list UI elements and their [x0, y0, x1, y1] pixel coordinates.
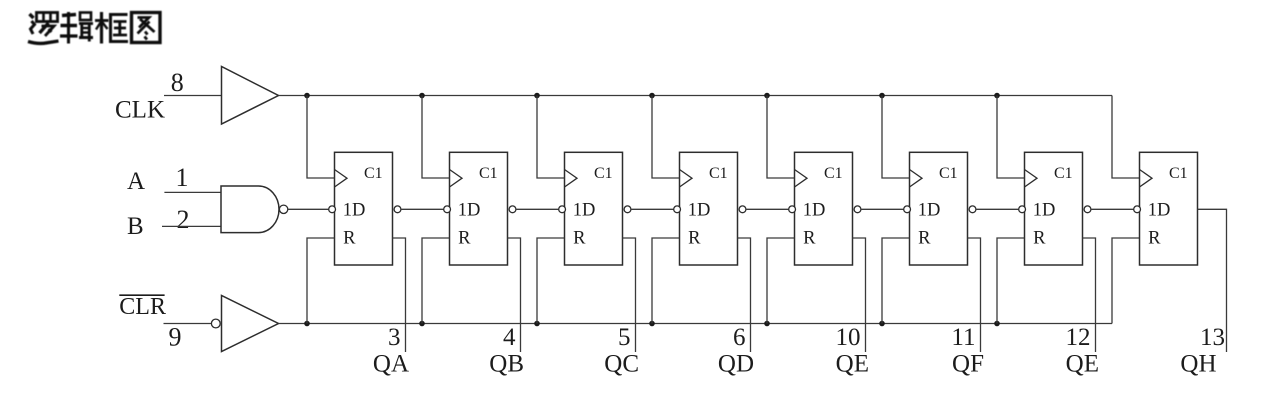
FF1 Q output bubble: [394, 206, 401, 213]
clock rail junction FF5: [764, 93, 770, 99]
FF6 D input bubble: [904, 206, 911, 213]
svg-text:R: R: [688, 229, 701, 249]
svg-text:R: R: [573, 229, 586, 249]
FF1 D input bubble: [329, 206, 336, 213]
svg-text:C1: C1: [1054, 165, 1073, 182]
wire clear rise FF1: [307, 238, 335, 324]
svg-text:C1: C1: [594, 165, 613, 182]
svg-text:R: R: [1033, 229, 1046, 249]
FF1 clock wedge: [335, 170, 348, 188]
svg-text:11: 11: [951, 324, 975, 351]
svg-text:C1: C1: [1169, 165, 1188, 182]
FF4 clock wedge: [680, 170, 693, 188]
svg-text:1D: 1D: [1033, 201, 1056, 221]
svg-text:R: R: [803, 229, 816, 249]
FF3 clock wedge: [565, 170, 578, 188]
D flip-flop FF8 body: [1140, 152, 1198, 265]
wire clock drop FF2: [422, 96, 450, 179]
wire clock rail end drop to FF8: [1112, 96, 1140, 179]
FF8 clock wedge: [1140, 170, 1153, 188]
wire FF1 output drop QA: [393, 238, 406, 352]
wire FF7 output drop QG: [1083, 238, 1096, 352]
wire clear rail end rise to FF8 R: [1112, 238, 1140, 324]
buffer U1 (CLK driver): [222, 67, 279, 125]
wire clear rise FF7: [997, 238, 1025, 324]
svg-text:5: 5: [618, 324, 631, 351]
svg-text:C1: C1: [709, 165, 728, 182]
svg-text:QA: QA: [373, 351, 409, 378]
svg-text:CLK: CLK: [115, 97, 165, 124]
wire clock drop FF5: [767, 96, 795, 179]
wire FF2 Q to FF3 D: [516, 208, 559, 210]
svg-text:6: 6: [733, 324, 746, 351]
svg-text:1D: 1D: [803, 201, 826, 221]
wire CLK input to buffer: [164, 95, 222, 97]
svg-text:QD: QD: [718, 351, 754, 378]
NAND gate U2 body: [221, 186, 279, 233]
D flip-flop FF6 body: [910, 152, 968, 265]
FF2 D input bubble: [444, 206, 451, 213]
svg-text:1D: 1D: [573, 201, 596, 221]
svg-text:QH: QH: [1180, 351, 1216, 378]
wire clock drop FF4: [652, 96, 680, 179]
wire clock drop FF6: [882, 96, 910, 179]
FF2 clock wedge: [450, 170, 463, 188]
clock rail junction FF4: [649, 93, 655, 99]
wire clear rise FF6: [882, 238, 910, 324]
clock rail junction FF6: [879, 93, 885, 99]
wire clock rail: [279, 95, 1113, 97]
wire FF2 output drop QB: [508, 238, 521, 352]
wire clear rise FF2: [422, 238, 450, 324]
svg-text:B: B: [127, 213, 144, 240]
clear rail junction FF4: [649, 321, 655, 327]
wire clear rise FF5: [767, 238, 795, 324]
svg-text:QB: QB: [489, 351, 524, 378]
wire B to NAND: [162, 225, 221, 227]
NAND output bubble: [279, 205, 287, 213]
svg-text:C1: C1: [824, 165, 843, 182]
wire A to NAND: [164, 191, 221, 193]
svg-text:CLR: CLR: [119, 294, 166, 320]
D flip-flop FF4 body: [680, 152, 738, 265]
svg-text:10: 10: [836, 324, 861, 351]
svg-text:3: 3: [388, 324, 401, 351]
svg-text:QF: QF: [952, 351, 984, 378]
svg-text:R: R: [1148, 229, 1161, 249]
wire FF1 Q to FF2 D: [401, 208, 444, 210]
svg-text:1D: 1D: [458, 201, 481, 221]
wire NAND out to FF1 D input: [288, 208, 329, 210]
wire FF5 Q to FF6 D: [861, 208, 904, 210]
D flip-flop FF5 body: [795, 152, 853, 265]
clear rail junction FF6: [879, 321, 885, 327]
wire clock drop FF3: [537, 96, 565, 179]
svg-text:1D: 1D: [918, 201, 941, 221]
svg-text:R: R: [343, 229, 356, 249]
clock rail junction FF1: [304, 93, 310, 99]
clock rail junction FF7: [994, 93, 1000, 99]
FF7 Q output bubble: [1084, 206, 1091, 213]
svg-text:1D: 1D: [343, 201, 366, 221]
clock rail junction FF2: [419, 93, 425, 99]
wire FF5 output drop QE: [853, 238, 866, 352]
D flip-flop FF3 body: [565, 152, 623, 265]
svg-text:9: 9: [169, 323, 182, 352]
svg-text:1D: 1D: [688, 201, 711, 221]
FF5 clock wedge: [795, 170, 808, 188]
wire clock drop FF1: [307, 96, 335, 179]
svg-text:C1: C1: [939, 165, 958, 182]
clear rail junction FF3: [534, 321, 540, 327]
svg-text:QE: QE: [836, 351, 869, 378]
FF3 Q output bubble: [624, 206, 631, 213]
clear rail junction FF1: [304, 321, 310, 327]
FF7 D input bubble: [1019, 206, 1026, 213]
wire clock drop FF7: [997, 96, 1025, 179]
wire FF6 output drop QF: [968, 238, 981, 352]
svg-text:8: 8: [171, 68, 184, 97]
svg-text:4: 4: [503, 324, 516, 351]
svg-text:QC: QC: [604, 351, 639, 378]
wire FF4 output drop QD: [738, 238, 751, 352]
wire FF6 Q to FF7 D: [976, 208, 1019, 210]
svg-text:C1: C1: [364, 165, 383, 182]
D flip-flop FF7 body: [1025, 152, 1083, 265]
svg-text:12: 12: [1066, 324, 1091, 351]
FF5 Q output bubble: [854, 206, 861, 213]
FF2 Q output bubble: [509, 206, 516, 213]
wire CLR input to inverter: [164, 323, 212, 325]
FF6 clock wedge: [910, 170, 923, 188]
svg-text:2: 2: [177, 205, 190, 234]
svg-text:1: 1: [176, 163, 189, 192]
FF7 clock wedge: [1025, 170, 1038, 188]
svg-text:C1: C1: [479, 165, 498, 182]
clear rail junction FF7: [994, 321, 1000, 327]
clock rail junction FF3: [534, 93, 540, 99]
svg-text:QE: QE: [1066, 351, 1099, 378]
svg-text:13: 13: [1200, 324, 1225, 351]
wire clear rise FF3: [537, 238, 565, 324]
D flip-flop FF1 body: [335, 152, 393, 265]
FF4 D input bubble: [674, 206, 681, 213]
inverter U3 (CLR driver): [222, 296, 279, 352]
wire clear rise FF4: [652, 238, 680, 324]
inverter input bubble: [211, 319, 220, 328]
FF3 D input bubble: [559, 206, 566, 213]
wire clear rail: [279, 323, 1113, 325]
FF6 Q output bubble: [969, 206, 976, 213]
wire FF4 Q to FF5 D: [746, 208, 789, 210]
FF8 D input bubble: [1134, 206, 1141, 213]
wire FF3 Q to FF4 D: [631, 208, 674, 210]
svg-text:R: R: [918, 229, 931, 249]
wire FF3 output drop QC: [623, 238, 636, 352]
D flip-flop FF2 body: [450, 152, 508, 265]
FF5 D input bubble: [789, 206, 796, 213]
clear rail junction FF2: [419, 321, 425, 327]
clear rail junction FF5: [764, 321, 770, 327]
svg-text:1D: 1D: [1148, 201, 1171, 221]
svg-text:R: R: [458, 229, 471, 249]
svg-text:A: A: [127, 168, 145, 195]
wire FF8 QH output: [1198, 209, 1227, 352]
wire FF7 Q to FF8 D: [1091, 208, 1134, 210]
FF4 Q output bubble: [739, 206, 746, 213]
